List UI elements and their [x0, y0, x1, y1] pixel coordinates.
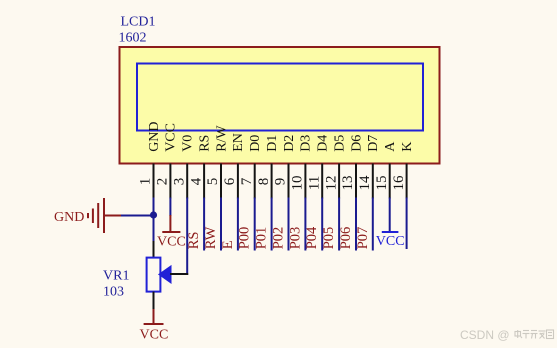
- svg-text:CSDN @: CSDN @: [460, 328, 510, 342]
- svg-text:D6: D6: [349, 135, 364, 152]
- wire pin1 to junction and to VR1: [153, 198, 155, 242]
- svg-text:P03: P03: [287, 227, 303, 250]
- svg-text:1602: 1602: [119, 31, 147, 46]
- svg-text:VCC: VCC: [157, 235, 186, 250]
- wire pin14: [372, 198, 374, 251]
- svg-text:6: 6: [222, 177, 238, 185]
- svg-text:12: 12: [323, 176, 339, 191]
- svg-text:4: 4: [188, 177, 204, 185]
- wire ground pin (red): [105, 215, 121, 217]
- pin 15 stub: [389, 164, 391, 199]
- svg-text:1: 1: [138, 178, 154, 186]
- svg-text:VCC: VCC: [164, 123, 179, 152]
- pin 16 stub: [406, 164, 408, 199]
- svg-text:14: 14: [357, 175, 373, 191]
- pin 1 stub: [153, 164, 155, 199]
- power VCC (pin15) symbol: [382, 231, 399, 233]
- pin 10 stub: [304, 164, 306, 199]
- svg-text:2: 2: [155, 178, 171, 186]
- svg-text:9: 9: [273, 178, 289, 186]
- svg-text:D7: D7: [366, 135, 381, 152]
- wire ground to junction (blue): [121, 215, 154, 217]
- pin 7 stub: [254, 164, 256, 199]
- svg-text:10: 10: [290, 176, 306, 191]
- ground symbol: [88, 198, 104, 233]
- svg-text:GND: GND: [54, 210, 84, 225]
- svg-text:8: 8: [256, 178, 272, 186]
- wire pin7: [254, 198, 256, 251]
- svg-text:7: 7: [239, 177, 255, 185]
- svg-text:5: 5: [205, 178, 221, 186]
- pin 8 stub: [271, 164, 273, 199]
- pin 4 stub: [203, 164, 205, 199]
- junction node: [150, 211, 157, 218]
- pin 14 stub: [372, 164, 374, 199]
- pin 2 stub: [169, 164, 171, 199]
- wire wiper to pin3 (black): [170, 273, 188, 275]
- wire pin15 to VCC: [389, 198, 391, 232]
- svg-text:GND: GND: [147, 121, 162, 151]
- potentiometer VR1 wiper arrow: [159, 266, 171, 283]
- svg-text:P01: P01: [254, 227, 270, 250]
- watermark CSDN: [460, 328, 554, 342]
- svg-text:RS: RS: [186, 232, 202, 250]
- svg-text:11: 11: [306, 176, 322, 190]
- svg-text:P06: P06: [338, 227, 354, 250]
- svg-text:RW: RW: [203, 226, 219, 249]
- LCD module U-body (LCD1): [120, 47, 440, 164]
- svg-text:A: A: [383, 141, 398, 152]
- svg-text:16: 16: [391, 175, 407, 191]
- svg-text:EN: EN: [231, 133, 246, 152]
- wire pin2 blue segment: [169, 198, 171, 217]
- pin 5 stub: [220, 164, 222, 199]
- svg-text:V0: V0: [181, 135, 196, 152]
- wire pin8: [271, 198, 273, 251]
- wire pin6: [237, 198, 239, 251]
- wire pin4: [203, 198, 205, 251]
- potentiometer VR1 body: [147, 258, 161, 292]
- svg-text:P00: P00: [237, 227, 253, 250]
- LCD screen window: [137, 64, 423, 131]
- potentiometer VR1 bottom pin (black): [153, 292, 155, 309]
- svg-text:D5: D5: [332, 135, 347, 152]
- svg-text:VR1: VR1: [103, 269, 129, 284]
- svg-text:LCD1: LCD1: [121, 15, 156, 30]
- pin 13 stub: [355, 164, 357, 199]
- svg-text:E: E: [220, 240, 236, 249]
- svg-text:P07: P07: [355, 227, 371, 250]
- svg-text:P02: P02: [271, 227, 287, 250]
- svg-text:RS: RS: [197, 135, 212, 152]
- svg-text:D1: D1: [265, 135, 280, 152]
- svg-text:R/W: R/W: [214, 125, 229, 152]
- wire pin16: [406, 198, 408, 250]
- svg-text:VCC: VCC: [140, 328, 169, 343]
- svg-text:103: 103: [103, 284, 124, 299]
- svg-text:P04: P04: [304, 226, 320, 249]
- pin 12 stub: [338, 164, 340, 199]
- pin 9 stub: [288, 164, 290, 199]
- svg-text:15: 15: [374, 176, 390, 191]
- wire pin12: [338, 198, 340, 251]
- pin 11 stub: [321, 164, 323, 199]
- svg-text:3: 3: [171, 178, 187, 186]
- power VCC (pin2) symbol: [162, 215, 180, 232]
- wire pin9: [288, 198, 290, 251]
- svg-text:D3: D3: [299, 135, 314, 152]
- svg-text:K: K: [400, 142, 415, 152]
- pin 6 stub: [237, 164, 239, 199]
- svg-text:VCC: VCC: [376, 234, 405, 249]
- wire pin3 down to wiper level: [186, 198, 188, 276]
- wire pin11: [321, 198, 323, 251]
- wire pin5: [220, 198, 222, 251]
- svg-text:D0: D0: [248, 135, 263, 152]
- svg-text:D2: D2: [282, 135, 297, 152]
- power VCC (VR1 bottom) symbol: [144, 309, 164, 324]
- svg-text:P05: P05: [321, 227, 337, 250]
- svg-text:D4: D4: [316, 135, 331, 152]
- wire pin13: [355, 198, 357, 251]
- potentiometer VR1 top pin (black): [153, 241, 155, 259]
- svg-text:13: 13: [340, 176, 356, 191]
- pin 3 stub: [186, 164, 188, 199]
- wire pin10: [304, 198, 306, 251]
